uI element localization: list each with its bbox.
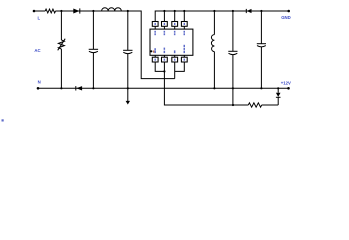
svg-text:+12V: +12V	[281, 80, 291, 85]
svg-text:L: L	[38, 16, 41, 21]
svg-text:GND: GND	[281, 15, 291, 20]
svg-text:N: N	[38, 80, 41, 85]
svg-text:AC: AC	[34, 48, 40, 53]
